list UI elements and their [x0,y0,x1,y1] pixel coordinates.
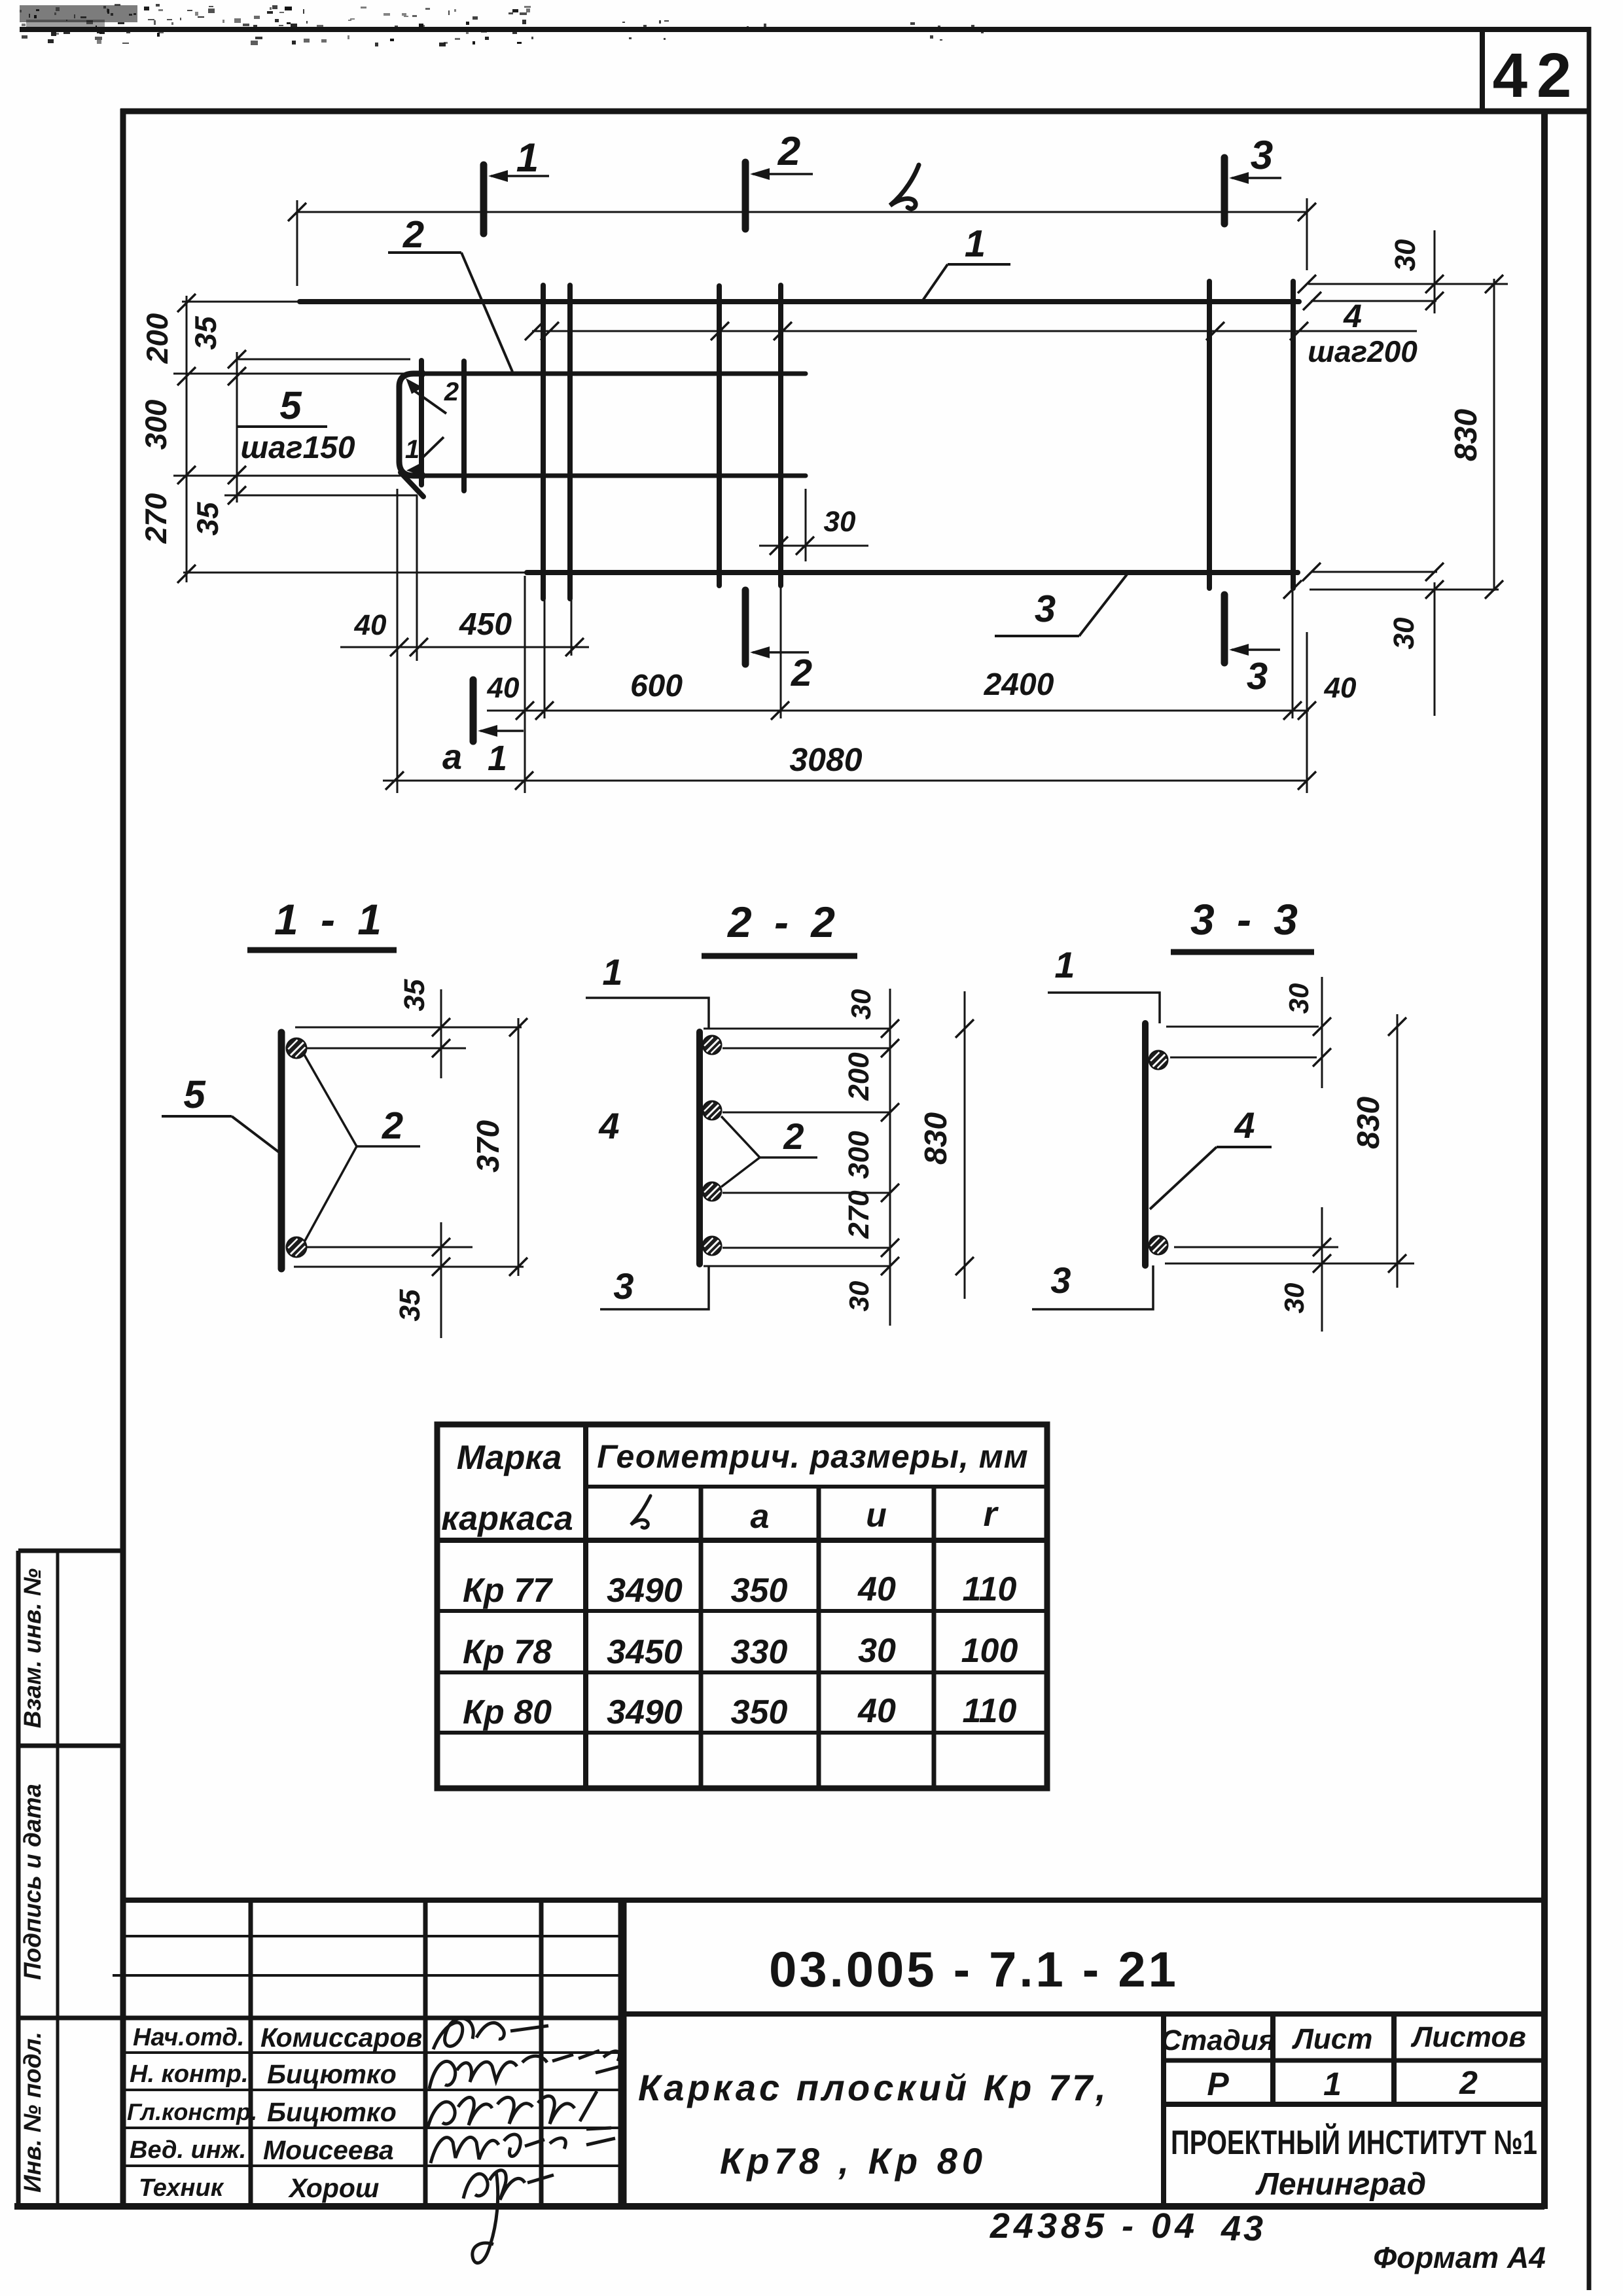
section 3-3 horizontal extension lines [1166,1026,1319,1028]
svg-text:Кр78 , Кр 80: Кр78 , Кр 80 [720,2140,987,2181]
svg-text:110: 110 [963,1692,1017,1730]
svg-text:каркаса: каркаса [441,1500,573,1538]
svg-text:Гл.констр.: Гл.констр. [127,2098,257,2125]
svg-text:300: 300 [843,1131,875,1179]
stage mini table border vertical 3 [1391,2014,1397,2104]
right bottom dimension 30 [1311,571,1437,573]
extension vertical right end lower [1306,632,1308,793]
inner frame left [120,109,126,2209]
svg-text:Кр 77: Кр 77 [463,1572,553,1610]
doc cell bottom line [622,2011,1544,2017]
svg-text:шаг200: шаг200 [1308,334,1418,368]
svg-text:3490: 3490 [607,1693,683,1731]
svg-text:40: 40 [1324,672,1357,704]
scan noise blob top-left corner [20,5,137,22]
table header bottom line [437,1538,1047,1543]
svg-text:3: 3 [1251,133,1273,178]
bar 2 upper extension line [173,373,419,375]
svg-text:4: 4 [1234,1104,1255,1146]
section mark 3 bottom [1221,595,1228,663]
outer top border line [20,27,1589,32]
svg-text:Кр 78: Кр 78 [463,1633,552,1671]
mid dimension 30 at bar2 end [759,545,868,547]
svg-text:43: 43 [1221,2209,1266,2248]
hook bottom extension line [224,495,418,497]
svg-text:Каркас плоский Кр 77,: Каркас плоский Кр 77, [638,2067,1109,2108]
signature scribble 2 Bitsyutko [429,2051,620,2089]
svg-text:30: 30 [858,1632,896,1670]
svg-text:Р: Р [1207,2066,1229,2102]
section 2-2 horizontal extension lines [704,1028,890,1030]
section 1-1 bottom rebar circle [287,1237,306,1257]
section mark 2 top [742,162,749,229]
hook leader slash to label 2 [415,391,446,414]
extension verticals under hook [397,489,399,793]
stirrup 5 bottom tail [401,472,423,497]
signature scribble 3 Bitsyutko [428,2091,611,2129]
hook leader slash to label 1 [421,437,444,459]
section mark 1 top [480,165,488,234]
hook top extension line [237,359,410,361]
svg-text:35: 35 [190,501,224,536]
svg-text:2: 2 [1459,2064,1478,2101]
svg-text:1: 1 [1323,2066,1342,2102]
section 1-1 top rebar circle [287,1038,306,1058]
svg-text:3080: 3080 [789,741,862,778]
dimension line shag200 row [532,330,1417,332]
section 3-3 dim 30 bottom [1321,1207,1323,1332]
section mark 2 bottom [742,590,749,664]
section 1-1 dim 370 [518,1018,520,1276]
sidebar inner vertical [56,1551,60,2206]
outer right border line [1587,27,1592,2290]
section 2-2 rebar circle 4 [703,1237,721,1255]
bar 2 lower middle longitudinal [419,474,806,478]
svg-text:3 - 3: 3 - 3 [1190,895,1303,944]
section 2-2 leader Y to label 2 [721,1116,760,1157]
svg-text:2: 2 [382,1104,403,1147]
table subheader L [631,1496,651,1528]
dimension 3080 overall bottom [383,780,1307,782]
sidebar outer vertical [16,1551,21,2206]
inner frame bottom [14,2203,1544,2210]
svg-text:a: a [442,737,462,777]
svg-text:Ленинград: Ленинград [1255,2167,1426,2202]
svg-text:Лист: Лист [1292,2023,1373,2055]
svg-text:2: 2 [777,129,800,174]
svg-text:1: 1 [965,222,986,265]
left dimension chain 35 35 [236,352,238,503]
svg-text:830: 830 [1351,1097,1386,1149]
svg-text:270: 270 [843,1190,875,1239]
bar 3 bottom longitudinal [527,570,1298,575]
svg-text:a: a [751,1498,770,1536]
section 2-2 rebar circle 2 [703,1101,721,1120]
svg-text:Н. контр.: Н. контр. [130,2060,249,2088]
svg-text:Техник: Техник [139,2174,224,2202]
svg-text:330: 330 [731,1633,788,1671]
signature scribble 1 [433,2019,548,2049]
sidebar box divider 1 [18,1744,123,1748]
signature scribble 5 Khorosh [463,2170,554,2263]
svg-text:600: 600 [630,669,683,703]
page number box [1480,29,1485,113]
section 3-3 rebar circle top [1149,1051,1168,1069]
svg-text:Инв. № подл.: Инв. № подл. [19,2032,46,2193]
extension vertical bar3 left end [524,576,526,793]
svg-text:35: 35 [399,979,431,1011]
svg-text:110: 110 [963,1570,1017,1608]
transverse bar v7 [1207,281,1212,588]
transverse bar v3 [541,285,546,599]
title block vertical col 4 heavy [618,1900,627,2206]
scan noise speckles at top of page [20,4,984,46]
svg-text:3: 3 [1247,655,1268,698]
transverse bar v6 [778,285,783,586]
dimension line L overall top [297,211,1307,213]
svg-text:3: 3 [1035,588,1056,630]
stirrup hook top arrowhead [406,378,423,394]
svg-text:300: 300 [139,399,173,450]
svg-text:шаг150: шаг150 [240,431,355,465]
table outer border [437,1424,1047,1788]
stage mini table border vertical 1 [1161,2014,1166,2206]
transverse bar v5 [717,286,722,586]
svg-text:30: 30 [824,506,856,538]
svg-text:Хорош: Хорош [288,2173,379,2203]
section 2-2 rebar circle 3 [703,1182,721,1201]
table column lines [583,1424,588,1788]
stirrup 5 U-hook [399,374,425,476]
svg-text:1: 1 [602,951,622,993]
svg-text:200: 200 [140,313,174,364]
section 1-1 dim 35 bottom [440,1222,442,1338]
svg-text:30: 30 [1283,983,1314,1014]
svg-text:830: 830 [919,1112,954,1165]
title block vertical col 2 [423,1900,428,2206]
svg-text:ПРОЕКТНЫЙ ИНСТИТУТ №1: ПРОЕКТНЫЙ ИНСТИТУТ №1 [1171,2123,1537,2162]
svg-text:2: 2 [791,652,812,694]
svg-text:03.005 - 7.1 - 21: 03.005 - 7.1 - 21 [769,1942,1179,1998]
svg-text:Нач.отд.: Нач.отд. [133,2024,244,2051]
svg-text:2: 2 [783,1116,804,1157]
svg-text:Комиссаров: Комиссаров [260,2022,422,2053]
dimension 40 450 under hook [340,646,589,648]
svg-text:3490: 3490 [607,1572,683,1610]
table row lines [437,1609,1047,1613]
section 3-3 dim 30 top [1321,977,1323,1088]
extra end ticks right side [1303,292,1321,310]
extension verticals transverse pair [544,599,546,718]
svg-text:270: 270 [139,493,173,544]
bar 2 upper middle longitudinal [419,372,806,376]
stage mini table header underline [1164,2058,1544,2063]
svg-text:40: 40 [354,609,387,641]
svg-text:1: 1 [1054,944,1075,985]
section 1-1 bottom lines [306,1246,473,1248]
svg-text:30: 30 [844,1281,874,1312]
svg-text:2: 2 [402,213,424,256]
svg-text:3450: 3450 [607,1633,683,1671]
svg-text:Бицютко: Бицютко [267,2059,397,2089]
svg-text:24385 - 04: 24385 - 04 [990,2206,1198,2246]
left dimension chain 200 300 270 [186,296,188,582]
svg-text:30: 30 [1279,1283,1310,1314]
transverse bar v8 [1291,281,1296,588]
section mark 3 top [1221,158,1228,224]
svg-text:4: 4 [598,1105,619,1146]
inner frame top [120,109,1589,115]
dimension 40 600 2400 40 row [487,710,1309,712]
svg-text:3: 3 [1050,1260,1071,1301]
right top dimension 30 [1308,283,1508,285]
title block upper thin rows [121,1935,622,1937]
section 2-2 dimension 830 [964,991,966,1299]
transverse bar v1 [419,361,424,485]
title block vertical col 1 [249,1900,253,2206]
svg-text:2 - 2: 2 - 2 [726,898,840,946]
svg-text:35: 35 [394,1289,426,1321]
svg-text:2400: 2400 [984,667,1054,702]
length symbol L script [890,165,919,209]
section 1-1 top lines [295,1027,522,1029]
svg-text:u: u [866,1496,887,1534]
svg-text:40: 40 [857,1692,896,1730]
svg-text:35: 35 [188,315,223,350]
transverse bar v2 [461,361,467,491]
svg-text:30: 30 [846,989,876,1020]
svg-text:370: 370 [471,1120,506,1173]
svg-text:Листов: Листов [1410,2021,1526,2053]
svg-text:1: 1 [488,739,507,778]
section 2-2 rebar circle 1 [703,1036,721,1054]
section 1-1 dim 35 top [440,989,442,1078]
stage mini table border vertical 2 [1270,2014,1275,2104]
section 3-3 stirrup bar [1142,1023,1149,1265]
svg-text:30: 30 [1389,239,1421,271]
svg-text:100: 100 [961,1632,1018,1670]
section 1-1 stirrup bar [278,1033,285,1269]
section 2-2 dimension chain [889,989,891,1326]
svg-text:450: 450 [459,607,512,642]
svg-text:Геометрич. размеры, мм: Геометрич. размеры, мм [597,1438,1028,1475]
title block name row lines [121,2051,622,2054]
bar 2 lower extension line [173,475,419,477]
bar 1 top longitudinal [300,299,1299,304]
svg-text:1: 1 [405,435,419,464]
svg-text:40: 40 [857,1570,896,1608]
table header split line [586,1485,1047,1489]
svg-text:4: 4 [1343,298,1362,334]
transverse bar v4 [567,285,573,599]
svg-text:Стадия: Стадия [1160,2024,1275,2057]
bar 1 left extension line [182,301,300,303]
title block stamp heavy line [18,2016,622,2021]
title block top line [121,1898,1544,1903]
title block vertical col 3 [539,1900,544,2206]
extension vertical v8 lower [1292,588,1294,718]
svg-text:1 - 1: 1 - 1 [274,895,387,944]
inner frame right [1541,109,1548,2209]
svg-text:r: r [983,1494,999,1534]
svg-text:200: 200 [843,1052,875,1101]
bar 3 left extension line [183,572,527,574]
svg-text:Формат А4: Формат А4 [1373,2240,1546,2274]
svg-text:Вед. инж.: Вед. инж. [130,2136,246,2164]
svg-text:5: 5 [279,383,302,427]
svg-text:Подпись и дата: Подпись и дата [19,1784,46,1980]
section 1-1 leader Y to label 2 [304,1055,357,1146]
svg-text:Бицютко: Бицютко [267,2097,397,2127]
svg-text:2: 2 [444,378,459,406]
svg-text:350: 350 [731,1693,788,1731]
svg-text:Взам. инв. №: Взам. инв. № [19,1568,46,1728]
svg-text:3: 3 [613,1265,633,1307]
svg-text:1: 1 [516,135,539,181]
section 2-2 stirrup bar [696,1032,703,1264]
stirrup hook bottom arrowhead [406,462,423,475]
stage mini table values underline [1164,2102,1544,2107]
svg-text:40: 40 [487,672,520,704]
section mark a1 bottom [470,680,477,741]
svg-text:30: 30 [1388,617,1420,649]
signature scribble 4 Moiseeva [431,2134,615,2163]
section 3-3 rebar circle bottom [1149,1236,1168,1254]
svg-text:830: 830 [1449,409,1484,461]
right dimension 830 [1493,279,1495,591]
sidebar box divider 2 [18,2016,123,2021]
svg-text:350: 350 [731,1572,788,1610]
extension vertical v6 lower [780,586,782,718]
section 3-3 dimension 830 [1397,1014,1399,1288]
svg-text:5: 5 [183,1072,206,1116]
svg-text:Кр 80: Кр 80 [463,1693,552,1731]
sidebar box top [18,1549,123,1553]
svg-text:Марка: Марка [457,1439,562,1477]
svg-text:42: 42 [1493,41,1581,111]
svg-text:Моисеева: Моисеева [263,2135,394,2165]
